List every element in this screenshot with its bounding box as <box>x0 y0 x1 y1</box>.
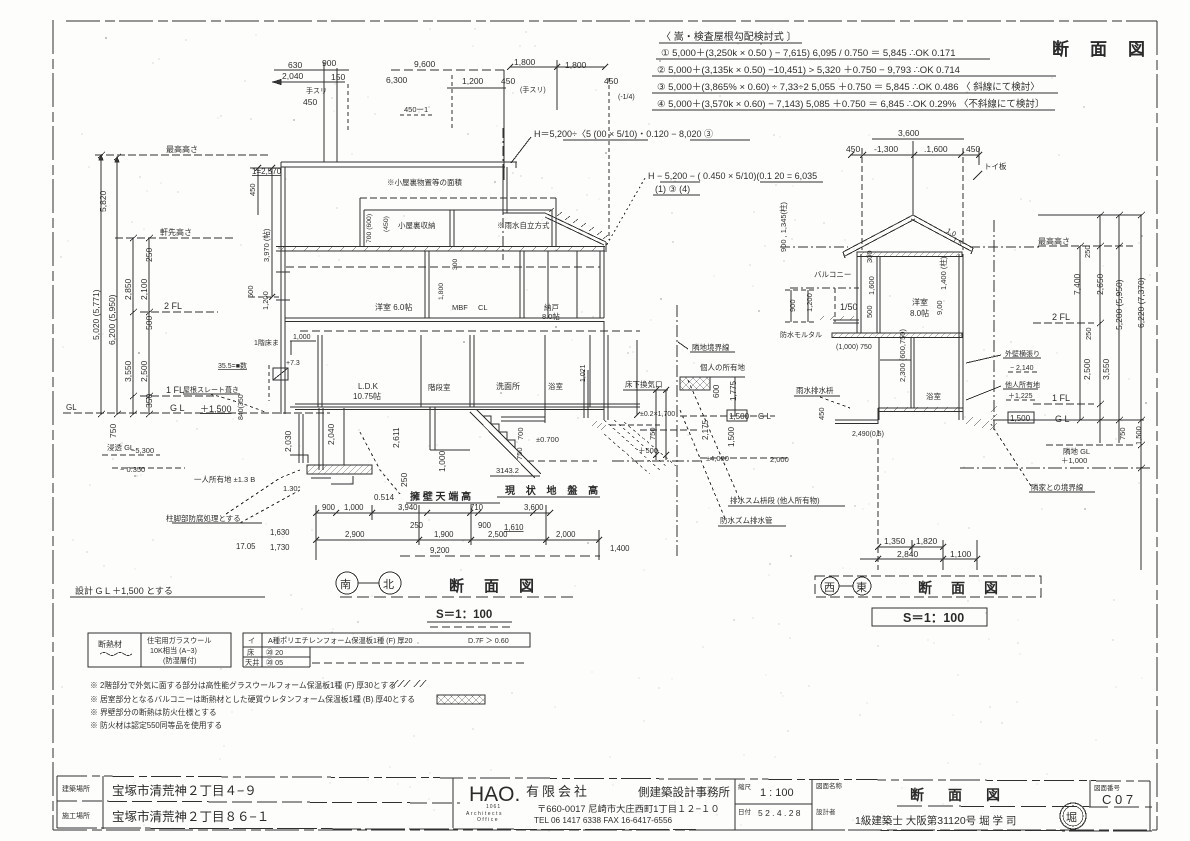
porch dim line right of left building <box>610 340 669 460</box>
svg-text:CL: CL <box>478 303 488 312</box>
svg-text:階段室: 階段室 <box>428 382 451 392</box>
svg-text:35.5=■数: 35.5=■数 <box>218 361 247 370</box>
svg-text:1,350: 1,350 <box>884 536 906 546</box>
svg-text:1,000: 1,000 <box>437 450 447 472</box>
site boundary line right <box>993 220 995 430</box>
svg-text:+7.3: +7.3 <box>286 360 300 367</box>
svg-text:2,000: 2,000 <box>770 455 789 464</box>
left building: flat roof <box>281 128 608 260</box>
svg-text:北: 北 <box>383 578 394 591</box>
svg-text:300: 300 <box>865 250 874 263</box>
svg-text:2,500: 2,500 <box>139 360 149 382</box>
right building walls <box>857 254 963 420</box>
svg-text:トイ板: トイ板 <box>984 161 1007 171</box>
left reference level lines <box>63 155 330 413</box>
svg-text:1,400: 1,400 <box>610 544 630 553</box>
svg-text:0.514: 0.514 <box>374 493 395 502</box>
svg-text:3,550: 3,550 <box>123 360 133 382</box>
svg-text:2,100: 2,100 <box>139 278 149 300</box>
svg-text:-1,300: -1,300 <box>874 144 898 154</box>
svg-text:900: 900 <box>322 58 336 68</box>
svg-text:1階床ま: 1階床ま <box>254 338 279 347</box>
roof hatch marks on slope <box>549 208 608 239</box>
svg-text:縮尺: 縮尺 <box>738 782 752 791</box>
svg-text:＋1,000: ＋1,000 <box>1061 456 1087 465</box>
left dim chain verticals <box>99 155 149 414</box>
boundary labels <box>692 342 745 372</box>
svg-text:600: 600 <box>712 384 721 398</box>
svg-text:2,040: 2,040 <box>326 423 336 445</box>
svg-text:一人所有地 ±1.3 B: 一人所有地 ±1.3 B <box>194 474 255 484</box>
svg-text:GL: GL <box>66 403 77 412</box>
svg-text:1,500: 1,500 <box>1010 414 1031 423</box>
leader formula H=5200 (3) <box>534 129 713 139</box>
svg-text:710: 710 <box>470 503 484 512</box>
svg-text:西: 西 <box>824 582 835 594</box>
svg-text:450ー1: 450ー1 <box>404 105 428 114</box>
svg-text:② 5,000＋(3,135k × 0.50) −10,45: ② 5,000＋(3,135k × 0.50) −10,451) > 5,320… <box>657 65 960 76</box>
svg-text:洋室: 洋室 <box>912 297 928 307</box>
svg-text:1,800: 1,800 <box>438 283 445 300</box>
porch leader <box>796 385 834 395</box>
boundary construction line <box>676 305 678 556</box>
svg-text:±0.2×1,700: ±0.2×1,700 <box>640 411 675 418</box>
svg-text:350: 350 <box>144 394 154 408</box>
svg-text:1,900: 1,900 <box>434 530 454 539</box>
svg-text:1=2,570: 1=2,570 <box>252 167 282 176</box>
svg-text:5,820: 5,820 <box>98 190 108 212</box>
svg-text:2,500: 2,500 <box>488 530 508 539</box>
svg-text:床: 床 <box>247 648 254 657</box>
svg-text:HAO.: HAO. <box>469 783 520 806</box>
svg-text:※ 2階部分で外気に面する部分は高性能グラスウールフォーム: ※ 2階部分で外気に面する部分は高性能グラスウールフォーム保温板1種 (F) 厚… <box>90 680 396 690</box>
svg-text:2,650: 2,650 <box>1095 273 1105 295</box>
svg-text:※ 界壁部分の断熱は防火仕様とする: ※ 界壁部分の断熱は防火仕様とする <box>90 707 217 717</box>
attic storage box <box>360 198 556 246</box>
left-side small annotations near 1F <box>183 334 311 420</box>
svg-text:1 FL: 1 FL <box>166 385 184 395</box>
svg-text:④ 5,000＋(3,570k × 0.60) − 7,14: ④ 5,000＋(3,570k × 0.60) − 7,143) 5,085 ＋… <box>657 98 1044 110</box>
svg-text:250: 250 <box>399 473 409 487</box>
drain pit leader notes <box>720 495 820 525</box>
svg-text:※小屋裏物置等の面積: ※小屋裏物置等の面積 <box>387 177 462 187</box>
svg-text:3143.2: 3143.2 <box>496 466 519 475</box>
svg-text:宝塚市清荒神２丁目４−９: 宝塚市清荒神２丁目４−９ <box>112 783 257 798</box>
below-floor dims <box>283 423 447 487</box>
svg-text:450: 450 <box>248 183 257 196</box>
foundation below floor <box>290 408 372 484</box>
svg-text:900 , 1,345(柱): 900 , 1,345(柱) <box>778 201 788 252</box>
svg-text:750: 750 <box>108 424 118 438</box>
right wall of tall part <box>502 167 504 213</box>
svg-text:＋1,500: ＋1,500 <box>200 404 232 414</box>
right wall leader notes <box>1005 349 1040 400</box>
svg-text:250: 250 <box>1083 245 1092 258</box>
GL lines right <box>960 420 1150 468</box>
svg-text:S＝1：100: S＝1：100 <box>903 611 964 625</box>
svg-text:最高高さ: 最高高さ <box>166 144 198 154</box>
svg-text:① 5,000＋(3,250k × 0.50 ) − 7,6: ① 5,000＋(3,250k × 0.50 ) − 7,615) 6,095 … <box>661 48 955 59</box>
svg-text:TEL 06 1417 6338 FAX 16-641: TEL 06 1417 6338 FAX 16-6417-6556 <box>534 816 673 825</box>
eave reference dash-dot lines <box>780 246 848 248</box>
svg-text:2,900: 2,900 <box>345 530 365 539</box>
svg-text:450: 450 <box>846 144 860 154</box>
svg-text:2,040: 2,040 <box>282 71 304 81</box>
svg-text:排水スム枡段 (他人所有物): 排水スム枡段 (他人所有物) <box>730 495 820 505</box>
asterisk notes <box>90 680 415 730</box>
2F interior walls <box>425 246 604 318</box>
svg-text:2 FL: 2 FL <box>164 301 182 311</box>
svg-text:9,200: 9,200 <box>430 546 450 555</box>
svg-text:3,970 (帖): 3,970 (帖) <box>261 228 271 262</box>
svg-text:(450): (450) <box>383 216 390 232</box>
svg-text:1,000: 1,000 <box>293 334 311 341</box>
svg-text:1,820: 1,820 <box>916 536 938 546</box>
svg-text:840(350: 840(350 <box>238 394 245 420</box>
top dims over left building <box>391 60 609 240</box>
svg-text:G L: G L <box>170 403 185 413</box>
svg-text:(手スリ): (手スリ) <box>520 85 546 94</box>
below-ground leader notes (left) <box>107 443 301 523</box>
svg-text:450: 450 <box>604 76 618 86</box>
svg-text:設計 G L ＋1,500 とする: 設計 G L ＋1,500 とする <box>75 585 173 596</box>
svg-text:断面図: 断面図 <box>910 787 1024 803</box>
svg-text:2,840: 2,840 <box>897 549 919 559</box>
svg-text:3,600: 3,600 <box>524 503 544 512</box>
svg-text:イ: イ <box>248 636 255 645</box>
svg-text:5 2 . 4 . 2 8: 5 2 . 4 . 2 8 <box>758 808 801 818</box>
svg-text:軒先高さ: 軒先高さ <box>160 227 192 237</box>
svg-text:2,030: 2,030 <box>283 430 293 452</box>
1F interior right bldg <box>879 337 914 420</box>
svg-text:※雨水自立方式: ※雨水自立方式 <box>497 220 550 230</box>
svg-text:隣地境界線: 隣地境界線 <box>692 342 730 352</box>
svg-text:10K相当 (A−3): 10K相当 (A−3) <box>150 646 197 655</box>
under-floor vent note <box>625 379 663 389</box>
svg-text:450: 450 <box>501 76 515 86</box>
svg-text:500: 500 <box>865 305 874 318</box>
svg-text:700 (600): 700 (600) <box>366 214 373 243</box>
svg-text:洋室 6.0帖: 洋室 6.0帖 <box>375 302 412 312</box>
2F floor band (hatched) <box>276 246 605 267</box>
registration stamp <box>1060 803 1086 829</box>
pit dims <box>638 380 789 464</box>
svg-text:2,000: 2,000 <box>556 530 576 539</box>
svg-text:住宅用ガラスウール: 住宅用ガラスウール <box>147 636 212 645</box>
svg-text:MBF: MBF <box>452 303 468 312</box>
svg-text:1,800: 1,800 <box>565 60 587 70</box>
svg-text:⑳ 05: ⑳ 05 <box>266 658 283 667</box>
svg-text:断熱材: 断熱材 <box>98 639 122 649</box>
svg-text:900: 900 <box>788 299 797 312</box>
svg-text:D.7F ＞ 0.60: D.7F ＞ 0.60 <box>468 636 509 645</box>
1F floor lines <box>290 404 640 410</box>
svg-text:堀: 堀 <box>1066 811 1077 824</box>
svg-text:500: 500 <box>246 285 255 298</box>
svg-text:5,200 (5,950): 5,200 (5,950) <box>1114 279 1124 330</box>
svg-text:〒660-0017 尼崎市大庄西町1丁目１２−１０: 〒660-0017 尼崎市大庄西町1丁目１２−１０ <box>537 803 720 814</box>
insulation table <box>243 633 530 667</box>
svg-text:250: 250 <box>410 521 424 530</box>
svg-text:設計者: 設計者 <box>816 807 836 816</box>
svg-text:1,800: 1,800 <box>514 57 536 67</box>
left wall top dim cluster <box>250 165 281 300</box>
svg-text:1 FL: 1 FL <box>1052 393 1070 403</box>
lower flat + slope roof <box>503 212 545 214</box>
roof slope formula block <box>657 30 1044 110</box>
svg-text:2,490(0,5): 2,490(0,5) <box>852 431 884 438</box>
svg-text:±0.700: ±0.700 <box>536 435 559 444</box>
svg-text:浴室: 浴室 <box>926 391 941 401</box>
tick marks left chain <box>98 152 153 417</box>
svg-text:7,400: 7,400 <box>1072 273 1082 295</box>
sheet title 断面図 top right <box>1052 39 1166 59</box>
svg-text:南: 南 <box>340 578 351 591</box>
top-left parapet dims <box>273 62 349 162</box>
svg-text:東: 東 <box>856 581 867 594</box>
svg-text:5,020 (5,771): 5,020 (5,771) <box>91 289 101 340</box>
svg-text:図面名称: 図面名称 <box>816 781 843 790</box>
ground slope hatch between buildings <box>604 420 676 474</box>
retaining wall note <box>374 466 602 503</box>
svg-text:天井: 天井 <box>245 658 259 667</box>
svg-text:10.75帖: 10.75帖 <box>353 391 381 401</box>
svg-text:他人所有地: 他人所有地 <box>1005 380 1040 389</box>
left rotated dim texts <box>91 190 154 438</box>
svg-text:3,550: 3,550 <box>1101 358 1111 380</box>
svg-text:床下換気口: 床下換気口 <box>625 379 663 389</box>
svg-text:− 0.350: − 0.350 <box>120 465 145 474</box>
svg-text:現 状 地 盤 高: 現 状 地 盤 高 <box>505 484 602 497</box>
svg-text:A種ポリエチレンフォーム保温板1種 (F) 厚20: A種ポリエチレンフォーム保温板1種 (F) 厚20 <box>268 636 413 645</box>
svg-text:2,850: 2,850 <box>123 278 133 300</box>
svg-text:Office: Office <box>477 817 499 823</box>
svg-text:1 : 100: 1 : 100 <box>760 787 794 799</box>
svg-text:3,600: 3,600 <box>898 128 920 138</box>
svg-text:断面図: 断面図 <box>918 580 1017 596</box>
left small dim near eave <box>778 201 788 252</box>
svg-text:1.30°: 1.30° <box>283 484 301 493</box>
svg-text:H − 5,200 − ( 0.450 × 5/10)(0.: H − 5,200 − ( 0.450 × 5/10)(0.1 20 = 6,0… <box>648 171 817 181</box>
svg-text:1,200: 1,200 <box>462 76 484 86</box>
svg-text:9,600: 9,600 <box>414 59 436 69</box>
1F floor right bldg <box>835 407 963 424</box>
svg-text:(1) ③ (4): (1) ③ (4) <box>655 184 690 194</box>
svg-text:6,300: 6,300 <box>386 75 408 85</box>
bottom dim chains <box>313 505 602 560</box>
svg-text:個人の所有地: 個人の所有地 <box>700 362 745 372</box>
svg-text:＋500: ＋500 <box>638 446 658 455</box>
svg-text:9,00: 9,00 <box>935 300 944 315</box>
2F ceiling hatched band <box>857 252 962 257</box>
svg-text:浴室: 浴室 <box>548 381 563 391</box>
svg-text:納戸: 納戸 <box>544 302 559 312</box>
svg-text:1級建築士 大阪第31120号 堀 学 司: 1級建築士 大阪第31120号 堀 学 司 <box>855 814 1016 827</box>
svg-text:1,200: 1,200 <box>805 293 814 312</box>
svg-text:1,200: 1,200 <box>261 291 270 310</box>
svg-text:有限会社: 有限会社 <box>526 784 590 799</box>
GL design note bottom-left <box>75 585 173 596</box>
svg-text:G L: G L <box>1055 414 1070 424</box>
2F window marks on left wall <box>276 271 290 273</box>
svg-text:(1,000) 750: (1,000) 750 <box>836 344 872 351</box>
svg-text:630: 630 <box>288 60 302 70</box>
svg-text:750: 750 <box>1118 427 1127 440</box>
svg-text:2,300 (600,750): 2,300 (600,750) <box>898 329 907 382</box>
svg-text:8.0帖: 8.0帖 <box>542 311 560 321</box>
right dim stack <box>1033 212 1145 570</box>
gable roof <box>843 215 973 258</box>
svg-text:1,100: 1,100 <box>950 549 972 559</box>
svg-text:小屋裏収納: 小屋裏収納 <box>398 220 436 230</box>
svg-text:施工場所: 施工場所 <box>62 811 90 820</box>
svg-text:宝塚市清荒神２丁目８６−１: 宝塚市清荒神２丁目８６−１ <box>112 809 269 824</box>
left building outer left wall <box>281 162 285 414</box>
svg-text:900: 900 <box>478 521 492 530</box>
svg-text:屋根スレート葺き: 屋根スレート葺き <box>183 385 239 394</box>
svg-text:外壁横張り: 外壁横張り <box>1005 349 1040 358</box>
svg-text:H＝5,200÷〈5 (00 × 5/10)・0.120 −: H＝5,200÷〈5 (00 × 5/10)・0.120 − 8,020 ③ <box>534 129 713 139</box>
svg-text:擁 壁 天 端 高: 擁 壁 天 端 高 <box>410 490 471 503</box>
svg-text:(-1/4): (-1/4) <box>618 94 635 101</box>
svg-text:300: 300 <box>452 258 459 270</box>
svg-text:− 2,140: − 2,140 <box>1010 365 1034 372</box>
balcony <box>790 288 859 323</box>
svg-text:6,200 (5,950): 6,200 (5,950) <box>107 294 117 345</box>
svg-text:手スリ: 手スリ <box>306 86 327 95</box>
HAO logo <box>466 783 520 823</box>
ground hatch right of building <box>966 417 997 430</box>
left level labels <box>66 144 232 414</box>
entrance steps / stairs diagonal <box>430 407 541 478</box>
svg-text:700: 700 <box>516 427 525 440</box>
svg-text:L.D.K: L.D.K <box>358 382 379 391</box>
svg-text:1061: 1061 <box>486 804 501 810</box>
svg-text:隣家との境界線: 隣家との境界線 <box>1031 482 1084 492</box>
svg-text:⑳ 20: ⑳ 20 <box>266 648 283 657</box>
svg-text:1,730: 1,730 <box>270 543 290 552</box>
svg-text:450: 450 <box>966 144 980 154</box>
svg-text:1,000: 1,000 <box>344 503 364 512</box>
svg-text:※ 防火材は認定550同等品を使用する: ※ 防火材は認定550同等品を使用する <box>90 720 222 730</box>
svg-text:150: 150 <box>331 72 345 82</box>
svg-text:建築場所: 建築場所 <box>62 784 90 793</box>
svg-text:250: 250 <box>1084 327 1093 340</box>
svg-text:−5,300: −5,300 <box>131 446 154 455</box>
svg-text:500: 500 <box>144 316 154 330</box>
2F floor band right bldg <box>832 333 962 338</box>
svg-text:750: 750 <box>648 427 657 440</box>
svg-text:C 0 7: C 0 7 <box>1102 792 1133 807</box>
top dims right <box>848 139 982 250</box>
svg-text:S＝1：100: S＝1：100 <box>436 609 492 621</box>
1F interior walls <box>318 321 608 420</box>
svg-text:1,400 (柱): 1,400 (柱) <box>938 256 948 290</box>
svg-text:900: 900 <box>322 503 336 512</box>
svg-text:1/50: 1/50 <box>840 302 858 312</box>
infiltration pit hatched box <box>680 377 710 390</box>
svg-text:③ 5,000＋(3,865% × 0.60) ÷ 7,33: ③ 5,000＋(3,865% × 0.60) ÷ 7,33÷2 5,055 ＋… <box>657 81 1040 93</box>
insulation box <box>88 633 231 667</box>
1F room labels <box>353 381 563 401</box>
svg-text:雨水排水枡: 雨水排水枡 <box>796 385 834 395</box>
svg-text:17.05: 17.05 <box>236 542 256 551</box>
svg-text:1,500: 1,500 <box>727 426 736 447</box>
svg-text:断面図: 断面図 <box>449 577 554 595</box>
svg-text:250: 250 <box>144 248 154 262</box>
svg-text:防水ズム排水管: 防水ズム排水管 <box>720 515 773 525</box>
svg-text:1,500: 1,500 <box>1134 426 1143 445</box>
svg-text:450: 450 <box>303 97 317 107</box>
svg-text:1,775: 1,775 <box>729 380 738 401</box>
construction line through <box>502 128 504 260</box>
svg-text:450: 450 <box>817 407 826 420</box>
svg-text:日付: 日付 <box>738 807 752 816</box>
svg-text:バルコニー: バルコニー <box>814 270 851 279</box>
svg-text:2,175: 2,175 <box>701 419 710 440</box>
svg-text:.1,600: .1,600 <box>924 144 948 154</box>
svg-text:2,611: 2,611 <box>391 427 401 448</box>
svg-text:〈 嵩・検査屋根勾配検討式 〕: 〈 嵩・検査屋根勾配検討式 〕 <box>661 30 797 43</box>
svg-text:断面図: 断面図 <box>1052 39 1166 59</box>
svg-text:1,630: 1,630 <box>270 528 290 537</box>
svg-text:(防湿層付): (防湿層付) <box>163 656 197 665</box>
svg-text:側建築設計事務所: 側建築設計事務所 <box>638 785 730 799</box>
svg-text:2,500: 2,500 <box>1082 358 1092 380</box>
svg-text:洗面所: 洗面所 <box>496 381 520 391</box>
svg-text:8.0帖: 8.0帖 <box>910 308 929 318</box>
right bottom dims <box>860 430 980 570</box>
neighbor boundary note <box>1031 482 1084 492</box>
svg-text:1,600: 1,600 <box>867 276 876 295</box>
west-east section title <box>815 576 1041 597</box>
svg-text:3,940: 3,940 <box>398 503 418 512</box>
2F floor / 1F ceiling lines <box>285 318 640 331</box>
svg-text:※ 居室部分となるバルコニーは断熱材とした硬質ウレタンフォ: ※ 居室部分となるバルコニーは断熱材とした硬質ウレタンフォーム保温板1種 (B)… <box>90 694 415 704</box>
svg-text:＋1,225: ＋1,225 <box>1008 392 1033 400</box>
2F interior right bldg <box>877 256 880 333</box>
svg-text:2 FL: 2 FL <box>1052 312 1070 322</box>
leader formula H=5200 (2nd) <box>648 171 817 194</box>
svg-text:1,021: 1,021 <box>580 364 587 382</box>
svg-text:隣地 GL: 隣地 GL <box>1063 446 1090 456</box>
svg-text:図面番号: 図面番号 <box>1094 784 1121 792</box>
svg-text:6,220 (7,370): 6,220 (7,370) <box>1136 277 1146 328</box>
2F room labels <box>375 302 560 321</box>
entrance lower floor <box>501 370 606 461</box>
svg-text:柱脚部防腐処理とする: 柱脚部防腐処理とする <box>166 513 241 523</box>
svg-text:750: 750 <box>515 447 524 460</box>
svg-text:防水モルタル: 防水モルタル <box>780 330 822 339</box>
south-north section title <box>336 572 401 594</box>
svg-text:最高高さ: 最高高さ <box>1038 236 1070 246</box>
